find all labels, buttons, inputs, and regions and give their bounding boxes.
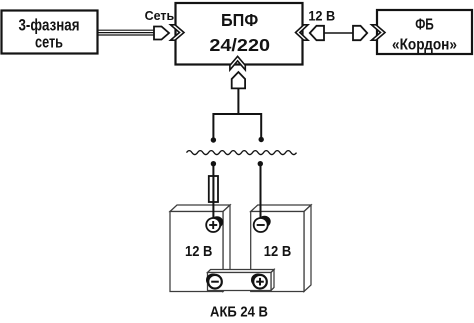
chevron connector at БПФ right edge [296,25,309,40]
node dot right (above break) [259,137,264,142]
jumper terminal + [251,274,267,289]
svg-text:АКБ 24 В: АКБ 24 В [210,305,268,321]
arrow toward БПФ (pentagon, points left) [310,26,324,40]
svg-text:«Кордон»: «Кордон» [392,36,457,53]
wire: 3-phase triple line [98,30,155,35]
jumper terminal - [206,274,222,289]
wire between arrows [324,32,353,34]
block "ФБ «Кордон»" [377,10,472,54]
fuse F1 [209,176,218,202]
terminal - (right battery) [254,216,271,232]
chevron connector at БПФ left edge [171,25,185,40]
arrow into БПФ bottom (pentagon, points up) [232,72,245,88]
svg-text:Сеть: Сеть [145,8,175,23]
jumper bar between batteries [208,270,275,291]
wire from battery bus up to arrow [237,88,239,114]
wire: right dot to - terminal [260,164,262,220]
node dot right (below break) [258,161,263,166]
battery GB2 (right 12 В) [251,205,311,292]
block "3-фазная сеть" [2,11,98,54]
block "БПФ 24/220" [176,3,303,65]
wire: left dot through fuse to + terminal [212,164,214,220]
arrow toward ФБ (pentagon, points right) [353,26,367,40]
break (wavy line) [187,151,297,155]
arrow into БПФ (pentagon) [154,27,169,40]
svg-text:3-фазная: 3-фазная [19,17,80,35]
battery GB1 (left 12 В) [170,205,230,292]
wire: right drop [260,113,262,138]
svg-text:12 В: 12 В [264,243,291,260]
node dot left (above break) [211,137,216,142]
svg-text:12 В: 12 В [185,243,212,260]
chevron connector at ФБ left edge [372,25,386,40]
svg-text:сеть: сеть [35,33,63,51]
svg-text:ФБ: ФБ [415,17,434,34]
terminal + (left battery) [206,216,223,232]
chevron connector at БПФ bottom edge [230,56,245,70]
svg-text:БПФ: БПФ [221,10,258,30]
svg-text:12 В: 12 В [308,8,335,23]
wire: left drop [212,113,214,138]
wire: T bus [213,113,261,115]
svg-text:24/220: 24/220 [209,35,270,55]
node dot left (below break) [211,161,216,166]
